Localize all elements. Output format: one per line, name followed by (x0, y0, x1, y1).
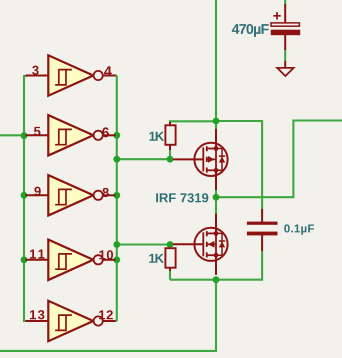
wire: resistor R1 bottom to gate node (169, 150, 171, 160)
wire: mid node branch right, up and out right edge (216, 121, 342, 198)
junction dot: right bus y=244 (113, 241, 120, 248)
wire: 470uF cap bottom to ground (284, 49, 286, 62)
label 1K (R2) (149, 254, 164, 263)
inverter gate U1E pins 13/12 (26, 301, 116, 341)
junction dot: source node (213, 276, 220, 283)
resistor R1 1K (165, 125, 175, 145)
junction dot: mid node (213, 194, 220, 201)
wire: input stub inv1 (23, 75, 27, 77)
resistor R1 bottom pin (169, 144, 171, 150)
capacitor C2 0.1uF top pin (261, 209, 263, 222)
wire: output stub inv3 (115, 194, 117, 196)
wire: output stub inv2 (115, 134, 117, 136)
capacitor C1 bottom plate (filled) (271, 30, 300, 36)
wire: drain node to 0.1uF cap (216, 121, 262, 211)
pin number 12 (99, 310, 113, 319)
pin number 13 (30, 310, 44, 319)
capacitor C2 top plate (247, 222, 278, 225)
junction dot: right bus y=135 (113, 132, 120, 139)
wire: resistor R2 bottom (169, 271, 171, 280)
wire: resistor R2 top to gate node (169, 245, 171, 247)
wire: input stub inv2 (23, 134, 27, 136)
capacitor C1 top plate (outline) (271, 23, 299, 26)
capacitor C1 470uF polarized: plus sign (273, 12, 280, 19)
wire: bus to gate 2 (117, 243, 173, 245)
junction dot: gate node 2 (167, 241, 174, 248)
label IRF 7319 (156, 193, 208, 202)
P-channel arrow (208, 241, 214, 248)
junction dot: drain node (213, 118, 220, 125)
wire: main supply column from top edge (215, 0, 217, 130)
wire: input feed from left edge (0, 134, 24, 136)
wire: 0.1uF cap bottom to source node (170, 250, 262, 280)
pin number 6 (102, 127, 109, 137)
resistor R2 bottom pin (169, 267, 171, 271)
pin number 5 (34, 127, 40, 136)
wire: input stub inv5 (23, 320, 27, 322)
pin number 10 (99, 250, 113, 259)
capacitor C2 bottom pin (261, 235, 263, 251)
wire: bus to gate 1 (117, 158, 173, 160)
capacitor C1 top pin (284, 4, 286, 23)
pin number 4 (104, 66, 112, 76)
inverter gate U1A pins 3/4 (26, 55, 116, 95)
junction dot: left bus y=135 (21, 132, 28, 139)
resistor R1 top pin (169, 122, 171, 126)
N-channel arrow (208, 156, 214, 163)
junction dot: right bus y=159 (113, 156, 120, 163)
wire: right output bus (116, 76, 118, 322)
capacitor C1 bottom pin (284, 35, 286, 50)
ground symbol triangle (277, 68, 293, 76)
junction dot: gate node 1 (167, 156, 174, 163)
inverter gate U1D pins 11/10 (26, 240, 116, 280)
wire: 470uF cap top at top edge (284, 0, 286, 5)
pin number 9 (34, 187, 40, 196)
junction dot: right bus y=195 (113, 192, 120, 199)
MOSFET Q2 P-channel (IRF7319 B) (173, 214, 228, 275)
capacitor C2 bottom plate (247, 232, 278, 236)
pin number 11 (30, 250, 44, 259)
MOSFET Q1 N-channel (IRF7319 A) (173, 129, 228, 190)
wire: output stub inv5 (115, 320, 117, 322)
wire: left input bus (23, 76, 25, 322)
resistor R2 1K (165, 248, 175, 268)
wire: resistor R1 top to main column (170, 121, 216, 122)
wire: source node down and out left bottom (0, 280, 216, 351)
wire: input stub inv3 (23, 194, 27, 196)
resistor R2 top pin (169, 246, 171, 249)
inverter gate U1B pins 5/6 (26, 115, 116, 155)
label 0.1uF (284, 224, 314, 234)
inverter gate U1C pins 9/8 (26, 175, 116, 215)
wire: mid node between FETs (215, 190, 217, 214)
wire: output stub inv4 (115, 259, 117, 261)
wire: input stub inv4 (23, 259, 27, 261)
label 470uF (232, 24, 269, 37)
pin number 8 (102, 188, 108, 197)
junction dot: right bus y=260 (113, 256, 120, 263)
label 1K (R1) (149, 132, 164, 141)
junction dot: left bus y=195 (21, 192, 28, 199)
ground symbol pin (284, 61, 286, 69)
junction dot: left bus y=260 (21, 256, 28, 263)
wire: output stub inv1 (115, 74, 117, 76)
pin number 3 (32, 66, 38, 75)
